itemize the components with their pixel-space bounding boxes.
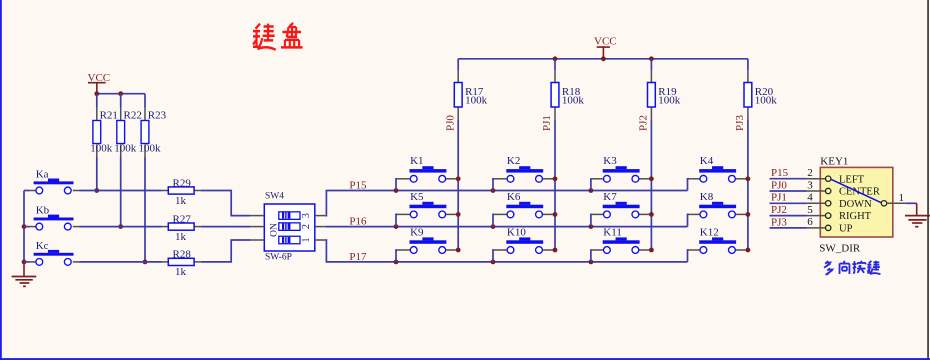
wire K6 left pin down to row P16	[493, 214, 494, 226]
resistor R20 100k (pull-up on PJ3)	[744, 70, 777, 120]
svg-text:K7: K7	[603, 191, 617, 203]
svg-text:P15: P15	[349, 180, 367, 192]
push button K3	[592, 155, 650, 182]
svg-text:3: 3	[301, 213, 312, 218]
svg-text:PJ2: PJ2	[638, 115, 650, 131]
svg-text:VCC: VCC	[88, 72, 111, 84]
svg-text:VCC: VCC	[594, 36, 617, 48]
wire K7 left pin down to row P16	[591, 214, 592, 226]
push button Kc	[30, 240, 80, 265]
svg-text:5: 5	[807, 204, 813, 216]
svg-text:P16: P16	[349, 216, 367, 228]
wire K11 left pin down to row P17	[591, 250, 592, 262]
svg-text:K1: K1	[410, 155, 423, 167]
svg-text:100k: 100k	[562, 94, 585, 106]
junction at (396.0, 261.9)	[394, 260, 399, 265]
svg-text:100k: 100k	[139, 143, 162, 155]
wire column PJ0 upper segment from bus to R17	[457, 59, 459, 70]
wire K9 left pin down to row P17	[396, 250, 397, 262]
resistor R21 100k (vertical, pin 1 to VCC rail)	[90, 108, 118, 158]
svg-text:PJ3: PJ3	[734, 115, 746, 131]
junction at (603.4, 58.8)	[601, 56, 606, 61]
junction at (493.0, 226.6)	[491, 224, 496, 229]
net label P15 (at KEY1)	[771, 167, 789, 179]
net label PJ1 (at KEY1)	[771, 192, 787, 204]
junction at (396.0, 190.5)	[394, 188, 399, 193]
wire R29 to SW4 pin (top-left), corner at x=231.2	[201, 191, 250, 216]
wire Kb left pin to left bus	[24, 226, 30, 228]
wire net stub P15 to KEY1 pin 2	[770, 178, 807, 180]
svg-text:R28: R28	[173, 249, 192, 261]
push button K8	[689, 191, 746, 218]
push button K12	[689, 226, 746, 253]
power VCC (top)	[594, 36, 617, 59]
wire column PJ1 upper segment from bus to R18	[554, 59, 556, 70]
svg-text:100k: 100k	[114, 143, 137, 155]
wire R28 to SW4 pin (bottom-left), corner at x=231.2	[201, 240, 250, 262]
wire top VCC bus y=58.8 from x=458.2 to x=747.9	[458, 58, 748, 60]
wire vertical from R22 bottom to row y=226.6	[120, 157, 122, 227]
wire SW4 pin2 to net P16 row	[325, 226, 687, 228]
wire K10 left pin down to row P17	[493, 250, 494, 262]
resistor R17 100k (pull-up on PJ0)	[454, 70, 487, 120]
junction at (651.4, 178.8)	[649, 176, 654, 181]
svg-text:Kc: Kc	[36, 240, 49, 252]
svg-text:K12: K12	[700, 226, 719, 238]
wire Kb right pin to R27 left pin	[80, 226, 162, 228]
push button K1	[397, 155, 456, 182]
wire K8 left pin down to row P16	[688, 214, 689, 226]
svg-text:K8: K8	[700, 191, 714, 203]
wire K5 left pin down to row P16	[396, 214, 397, 226]
junction at (651.4, 214.4)	[649, 212, 654, 217]
wire left vertical bus x=24 joining Ka/Kb/Kc left pins	[23, 191, 25, 262]
wire K2 left pin down to row P15	[493, 179, 494, 191]
svg-text:LEFT: LEFT	[839, 174, 865, 185]
junction at (747.9, 178.8)	[746, 176, 751, 181]
push button Kb	[30, 205, 80, 231]
wire Ka left pin to left bus	[24, 190, 30, 192]
svg-text:1: 1	[899, 192, 905, 204]
svg-text:DOWN: DOWN	[839, 199, 872, 210]
svg-text:100k: 100k	[755, 94, 778, 106]
junction at (96.8, 93.7)	[94, 91, 99, 96]
wire vertical from VCC rail to R21 top at x=96.8	[96, 94, 98, 108]
svg-text:100k: 100k	[90, 143, 113, 155]
svg-text:PJ0: PJ0	[444, 115, 456, 131]
svg-text:PJ1: PJ1	[771, 192, 787, 204]
net label P16 (row 2)	[349, 216, 367, 228]
net label P15 (row 1)	[349, 180, 367, 192]
annotation: blue text "多向按键" (multi-directional button)	[824, 261, 880, 275]
svg-text:SW_DIR: SW_DIR	[819, 243, 861, 255]
net label PJ1 (rotated)	[541, 115, 553, 131]
wire SW4 pin3 to net P15 row	[325, 191, 687, 216]
push button K10	[494, 226, 553, 253]
net label PJ2 (at KEY1)	[771, 204, 787, 216]
resistor R18 100k (pull-up on PJ1)	[551, 70, 584, 120]
wire column PJ2 vertical from resistor to button row 3	[650, 120, 652, 251]
wire VCC rail (left): horizontal y=93.7 from x=96.8 to x=145	[97, 93, 145, 95]
push button K5	[397, 191, 456, 218]
junction at (555, 58.8)	[553, 56, 558, 61]
wire vertical from VCC rail to R23 top at x=145.0	[144, 94, 146, 108]
junction at (493.0, 261.9)	[491, 260, 496, 265]
wire K12 left pin down to row P17	[688, 250, 689, 262]
wire net stub PJ1 to KEY1 pin 4	[770, 202, 807, 204]
annotation: red title text "键盘" (Keypad)	[253, 23, 303, 50]
wire column PJ3 upper segment from bus to R20	[747, 59, 749, 70]
wire K4 left pin down to row P15	[688, 179, 689, 191]
junction at (651.4, 58.8)	[649, 56, 654, 61]
resistor R28 1k (horizontal, series with Kc)	[162, 249, 202, 279]
svg-text:ON: ON	[270, 223, 280, 237]
power VCC (left)	[88, 72, 111, 94]
push button K4	[689, 155, 746, 182]
push button K2	[494, 155, 553, 182]
svg-text:K2: K2	[507, 155, 520, 167]
junction at (555.0, 178.8)	[553, 176, 558, 181]
svg-text:PJ2: PJ2	[771, 204, 787, 216]
junction at (458.2, 214.4)	[456, 212, 461, 217]
wire Kc left pin to left bus	[24, 261, 30, 263]
svg-text:1k: 1k	[175, 231, 187, 243]
svg-text:PJ1: PJ1	[541, 115, 553, 131]
wire net stub PJ3 to KEY1 pin 6	[770, 227, 807, 229]
resistor R27 1k (horizontal, series with Kb)	[162, 213, 202, 243]
svg-text:RIGHT: RIGHT	[839, 211, 872, 222]
wire KEY1 pin 1 to ground	[906, 202, 917, 204]
wire vertical from R21 bottom to row y=190.5	[96, 157, 98, 191]
junction at (24, 261.9)	[22, 260, 27, 265]
svg-text:R21: R21	[100, 109, 118, 121]
svg-text:R29: R29	[173, 177, 192, 189]
svg-text:KEY1: KEY1	[820, 156, 848, 168]
net label P17 (row 3)	[349, 251, 367, 263]
svg-text:2: 2	[807, 167, 813, 179]
resistor R29 1k (horizontal, series with Ka)	[162, 177, 202, 207]
push button K6	[494, 191, 553, 218]
svg-text:1: 1	[301, 238, 312, 243]
wire column PJ3 vertical from resistor to button row 3	[747, 120, 749, 251]
svg-text:PJ0: PJ0	[771, 179, 787, 191]
junction at (396.0, 226.6)	[394, 224, 399, 229]
junction at (120.7, 93.7)	[118, 91, 123, 96]
svg-text:4: 4	[807, 192, 813, 204]
svg-text:100k: 100k	[658, 94, 681, 106]
svg-text:P15: P15	[771, 167, 789, 179]
svg-text:SW-6P: SW-6P	[265, 253, 292, 263]
junction at (651.4, 250.0)	[649, 248, 654, 253]
junction at (96.8, 190.5)	[94, 188, 99, 193]
junction at (458.2, 178.8)	[456, 176, 461, 181]
svg-text:6: 6	[807, 216, 813, 228]
svg-text:K3: K3	[603, 155, 617, 167]
junction at (145.0, 261.9)	[143, 260, 148, 265]
svg-text:1k: 1k	[175, 195, 187, 207]
junction at (24, 226.6)	[22, 224, 27, 229]
svg-text:P17: P17	[349, 251, 367, 263]
junction at (747.9, 250.0)	[746, 248, 751, 253]
svg-text:Ka: Ka	[36, 168, 49, 180]
net label PJ3 (rotated)	[734, 115, 746, 131]
wire R27 to SW4 pin (middle-left)	[201, 226, 250, 228]
svg-text:K4: K4	[700, 155, 714, 167]
ground (left, below Kc)	[12, 262, 37, 286]
wire column PJ1 vertical from resistor to button row 3	[554, 120, 556, 251]
net label PJ0 (at KEY1)	[771, 179, 787, 191]
wire K1 left pin down to row P15	[396, 179, 397, 191]
junction at (120.7, 226.6)	[118, 224, 123, 229]
junction at (590.9, 261.9)	[589, 260, 594, 265]
wire column PJ0 vertical from resistor to button row 3	[457, 120, 459, 251]
resistor R22 100k (vertical, pin 1 to VCC rail)	[114, 108, 142, 158]
wire Ka right pin to R29 left pin	[80, 190, 162, 192]
ground (right, at KEY1 pin 1)	[905, 203, 930, 226]
DIP switch SW4 (SW-6P)	[250, 192, 325, 263]
wire column PJ2 upper segment from bus to R19	[650, 59, 652, 70]
wire net stub PJ2 to KEY1 pin 5	[770, 215, 807, 217]
svg-text:SW4: SW4	[265, 192, 284, 202]
svg-text:K5: K5	[410, 191, 424, 203]
svg-text:100k: 100k	[465, 94, 488, 106]
resistor R23 100k (vertical, pin 1 to VCC rail)	[139, 108, 167, 158]
resistor R19 100k (pull-up on PJ2)	[648, 70, 681, 120]
push button Ka	[30, 168, 80, 194]
junction at (747.9, 214.4)	[746, 212, 751, 217]
wire Kc right pin to R28 left pin	[80, 261, 162, 263]
svg-text:PJ3: PJ3	[771, 216, 787, 228]
net label PJ3 (at KEY1)	[771, 216, 787, 228]
svg-text:2: 2	[301, 224, 312, 229]
junction at (458.2, 250.0)	[456, 248, 461, 253]
junction at (590.9, 190.5)	[589, 188, 594, 193]
junction at (555.0, 250.0)	[553, 248, 558, 253]
wire vertical from VCC rail to R22 top at x=120.7	[120, 94, 122, 108]
wire SW4 pin1 to net P17 row	[325, 240, 687, 262]
svg-text:K6: K6	[507, 191, 521, 203]
5-way switch KEY1 (SW_DIR)	[807, 156, 907, 255]
svg-text:Kb: Kb	[36, 205, 50, 217]
junction at (590.9, 226.6)	[589, 224, 594, 229]
svg-text:K9: K9	[410, 226, 424, 238]
junction at (555.0, 214.4)	[553, 212, 558, 217]
push button K9	[397, 226, 456, 253]
svg-text:R23: R23	[148, 109, 167, 121]
net label PJ0 (rotated)	[444, 115, 456, 131]
svg-text:UP: UP	[839, 224, 853, 235]
junction at (493.0, 190.5)	[491, 188, 496, 193]
svg-text:K11: K11	[603, 226, 622, 238]
svg-text:K10: K10	[507, 226, 526, 238]
push button K7	[592, 191, 650, 218]
wire vertical from R23 bottom to row y=261.9	[144, 157, 146, 262]
wire K3 left pin down to row P15	[591, 179, 592, 191]
wire net stub PJ0 to KEY1 pin 3	[770, 190, 807, 192]
svg-text:R27: R27	[173, 213, 192, 225]
push button K11	[592, 226, 650, 253]
net label PJ2 (rotated)	[638, 115, 650, 131]
svg-text:3: 3	[807, 179, 813, 191]
svg-text:R22: R22	[124, 109, 142, 121]
svg-text:1k: 1k	[175, 266, 187, 278]
